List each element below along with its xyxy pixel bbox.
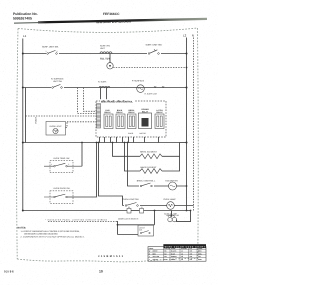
svg-text:OVEN TEMP. SW.: OVEN TEMP. SW. <box>54 157 71 160</box>
svg-text:5995267405: 5995267405 <box>13 16 32 20</box>
svg-text:BAKE ELEMENT: BAKE ELEMENT <box>141 166 158 169</box>
svg-text:OVEN LAMP: OVEN LAMP <box>163 198 176 201</box>
wire rung2 <box>23 87 187 89</box>
svg-text:MOTOR: MOTOR <box>140 132 147 135</box>
svg-text:SURF. UNIT SW.: SURF. UNIT SW. <box>42 46 59 49</box>
svg-text:UNIT: UNIT <box>100 47 106 50</box>
svg-text:1: 1 <box>46 50 47 53</box>
broil control row with motor <box>128 143 187 187</box>
svg-text:NOTES:: NOTES: <box>18 226 27 229</box>
relay K1 <box>104 109 113 129</box>
oven light switch row <box>99 143 123 206</box>
svg-text:10: 10 <box>99 270 103 274</box>
legend table <box>148 244 206 261</box>
wire riser box A to bus <box>81 143 83 167</box>
pilot lamp circle <box>107 54 113 70</box>
switch S3 <box>51 84 64 89</box>
svg-text:OVEN LIGHT SW.: OVEN LIGHT SW. <box>122 198 139 201</box>
svg-text:R. SURF UNIT: R. SURF UNIT <box>145 93 158 96</box>
wire rung1 <box>23 53 187 55</box>
bake element row <box>125 143 141 172</box>
svg-text:2: 2 <box>57 50 58 53</box>
svg-text:2. COMPONENTS WITH (*) DO NOT: 2. COMPONENTS WITH (*) DO NOT APPEAR ON … <box>21 236 85 239</box>
svg-text:* INDICATES PANEL LIGHTING CIR: * INDICATES PANEL LIGHTING CIRCUIT WIRIN… <box>45 218 108 221</box>
relay K3 <box>128 109 137 129</box>
svg-text:L2: L2 <box>183 34 187 38</box>
wire riser box B to bus <box>67 143 96 198</box>
switch S1 (surface unit switch left) <box>46 50 60 56</box>
control box top terminals <box>103 100 124 101</box>
rail L2 <box>186 38 188 211</box>
rail L1 <box>22 39 24 211</box>
wire lamp box to control <box>66 122 68 128</box>
surface unit circle with wave <box>137 85 145 93</box>
svg-text:UNIT SW.: UNIT SW. <box>53 80 63 83</box>
diagram frame <box>18 28 198 32</box>
bus wire under control box <box>23 142 180 144</box>
svg-text:R. SURF.: R. SURF. <box>98 81 107 84</box>
svg-text:DOOR LATCH SWITCH: DOOR LATCH SWITCH <box>118 218 139 221</box>
wire stubs into control box <box>100 88 102 102</box>
junction dots bus <box>22 142 24 144</box>
oven light fixture box <box>46 122 66 136</box>
junction dots rails <box>22 53 24 55</box>
relay K4 <box>155 109 164 129</box>
rail N <box>193 38 195 211</box>
wire drop from rung2 <box>25 88 27 143</box>
wires into left of control box <box>26 115 97 117</box>
svg-text:SURF. UNIT SW.: SURF. UNIT SW. <box>146 44 163 47</box>
svg-text:J15BM1511: J15BM1511 <box>98 255 124 258</box>
wires control box to bus <box>100 137 159 143</box>
svg-text:02/96: 02/96 <box>4 269 14 273</box>
transformer T1 (dark block) <box>139 108 152 128</box>
svg-text:BROIL CONTROL L: BROIL CONTROL L <box>137 179 156 182</box>
surface element coil RR <box>100 52 112 54</box>
svg-text:L1: L1 <box>23 34 27 38</box>
door latch branch <box>48 221 118 223</box>
svg-text:WIRE COLOR CODE CHART: WIRE COLOR CODE CHART <box>165 245 206 248</box>
svg-text:FEF366CC: FEF366CC <box>103 12 120 16</box>
bottom rung <box>23 210 127 212</box>
electronic oven control box <box>96 99 166 137</box>
switch S2 (surface unit switch right) <box>147 49 161 56</box>
svg-text:OVEN DOOR CLOSED AND UNLOCKED.: OVEN DOOR CLOSED AND UNLOCKED. <box>24 232 58 235</box>
svg-text:N: N <box>192 34 194 38</box>
svg-text:2: 2 <box>68 163 69 166</box>
connector marks rung2 <box>154 86 164 88</box>
svg-text:SW.: SW. <box>139 228 143 231</box>
broil/bake element loop <box>113 143 141 157</box>
svg-text:P. SURFACE: P. SURFACE <box>132 80 145 83</box>
svg-text:VIOLET: VIOLET <box>35 116 38 124</box>
left dashed box A (oven temp switch) <box>44 157 82 173</box>
svg-text:BROIL ELEMENT: BROIL ELEMENT <box>140 151 157 154</box>
header rule thin left part <box>14 21 100 23</box>
terminal strip (ribbon connector) <box>97 104 101 129</box>
svg-text:Publication No.: Publication No. <box>13 12 38 16</box>
surface element coil LF <box>99 86 110 87</box>
svg-text:1: 1 <box>51 163 52 166</box>
svg-text:OVEN DOOR SW.: OVEN DOOR SW. <box>54 187 71 190</box>
svg-text:DOOR: DOOR <box>128 132 134 135</box>
svg-text:ELECTRONIC OVEN CONTROL: ELECTRONIC OVEN CONTROL <box>101 101 133 104</box>
header bar <box>38 19 207 23</box>
relay K2 <box>116 109 125 129</box>
wire pilot to L2 <box>113 67 186 69</box>
left dashed box B (oven door switch) <box>44 187 73 203</box>
svg-text:OVEN LIGHT: OVEN LIGHT <box>49 125 62 128</box>
svg-text:TDL TDT: TDL TDT <box>100 58 110 61</box>
